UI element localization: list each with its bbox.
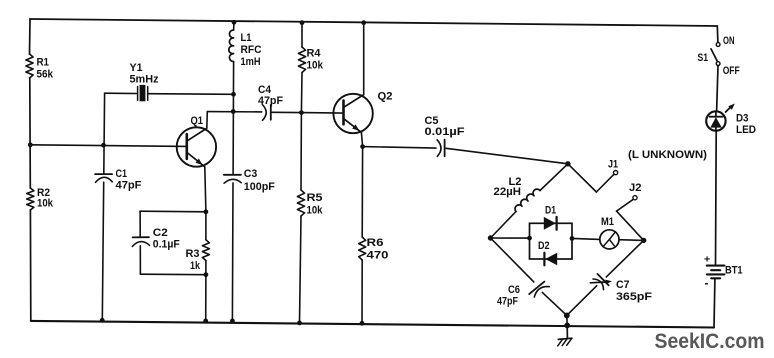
- svg-text:365pF: 365pF: [616, 291, 652, 303]
- wire C2 box left bottom: [139, 246, 141, 274]
- wire L1 to C3: [232, 62, 235, 175]
- svg-text:470: 470: [367, 249, 389, 261]
- node base-wire/left-edge junction: [28, 142, 33, 147]
- svg-text:10k: 10k: [307, 205, 324, 217]
- node Q2 collector at rail: [361, 20, 366, 25]
- wire crystal branch vertical: [103, 93, 106, 173]
- wire top node to J1 bend: [568, 164, 597, 192]
- svg-text:J1: J1: [608, 159, 618, 171]
- wire node to R5: [300, 113, 302, 190]
- node bridge bottom: [564, 313, 570, 319]
- wire Q1 collector up: [206, 112, 209, 129]
- meter M1: [600, 230, 619, 249]
- wire Q1 base net: [30, 145, 187, 147]
- wire emitter to C5: [363, 147, 436, 149]
- wire C7 to bottom node: [567, 286, 597, 316]
- svg-text:47pF: 47pF: [258, 95, 283, 107]
- wire bottom rail: [31, 321, 714, 328]
- node bridge top: [565, 161, 570, 166]
- node R4 top at rail: [300, 20, 305, 25]
- svg-text:47pF: 47pF: [497, 296, 518, 308]
- svg-text:LED: LED: [736, 124, 756, 136]
- transistor Q1: [177, 127, 216, 166]
- wire right node to C7: [606, 240, 643, 277]
- resistor R3: [205, 212, 207, 240]
- LED arrow: [726, 107, 731, 112]
- node C3 branch at bottom rail: [230, 319, 235, 324]
- wire collector to C4 net: [207, 111, 261, 113]
- node R5 branch at bottom rail: [297, 321, 302, 326]
- node C1 branch at bottom rail: [100, 318, 105, 323]
- wire diode box to M1: [572, 238, 600, 239]
- svg-text:C7: C7: [616, 279, 630, 291]
- wire J2 bend up: [617, 199, 634, 211]
- node crystal/L1-branch junction: [231, 92, 236, 97]
- battery BT1: [707, 265, 725, 267]
- node R6 branch at bottom rail: [360, 321, 365, 326]
- svg-text:C2: C2: [153, 227, 168, 239]
- wire Q2 emitter down: [361, 132, 362, 146]
- svg-text:D1: D1: [545, 205, 556, 217]
- capacitor C4: [262, 105, 266, 121]
- wire left node to diode box: [491, 237, 530, 239]
- wire R3 to bottom rail: [205, 275, 207, 321]
- svg-text:R5: R5: [307, 192, 323, 204]
- svg-text:BT1: BT1: [725, 265, 743, 277]
- node C4/R4/R5 junction: [299, 110, 304, 115]
- svg-text:RFC: RFC: [241, 44, 262, 56]
- node C1/base junction: [101, 143, 106, 148]
- svg-text:C6: C6: [508, 284, 520, 296]
- svg-text:(L UNKNOWN): (L UNKNOWN): [628, 149, 707, 161]
- wire left node to C6: [491, 238, 534, 282]
- node collector wire / L1 branch: [231, 109, 236, 114]
- svg-text:OFF: OFF: [723, 65, 740, 77]
- wire C3 to bottom rail: [231, 183, 234, 321]
- switch S1 terminal OFF: [716, 62, 720, 66]
- svg-text:-: -: [705, 276, 709, 290]
- wire L2 to left node: [491, 212, 517, 239]
- wire C2 box top: [140, 210, 206, 213]
- wire Q1 emitter down: [205, 167, 206, 212]
- wire M1 to right node: [619, 239, 644, 242]
- capacitor C2: [133, 236, 149, 238]
- capacitor C5: [437, 140, 441, 157]
- svg-text:+: +: [704, 254, 710, 266]
- svg-text:1k: 1k: [190, 260, 201, 272]
- wire Q2 collector up: [363, 23, 365, 95]
- resistor R2: [27, 188, 34, 210]
- capacitor C3: [224, 174, 241, 176]
- ground: [566, 325, 568, 338]
- wire bridge top to L2: [540, 164, 568, 191]
- wire rail to R4: [301, 23, 303, 47]
- wire C2 box bottom: [140, 273, 206, 276]
- svg-text:0.1µF: 0.1µF: [153, 239, 180, 251]
- svg-text:5mHz: 5mHz: [130, 74, 159, 86]
- svg-text:S1: S1: [698, 52, 709, 64]
- svg-text:R1: R1: [37, 57, 50, 69]
- wire LED to battery: [715, 131, 718, 265]
- svg-text:1mH: 1mH: [241, 56, 261, 68]
- svg-text:J2: J2: [629, 182, 642, 194]
- node diode box right: [570, 236, 575, 241]
- svg-text:M1: M1: [601, 216, 614, 228]
- inductor L1: [233, 22, 235, 30]
- svg-text:R6: R6: [367, 237, 384, 249]
- svg-text:0.01µF: 0.01µF: [425, 126, 465, 138]
- switch S1 blade: [711, 49, 718, 62]
- node L1 top at rail: [232, 20, 237, 25]
- svg-text:ON: ON: [723, 35, 735, 47]
- node Q2 emitter junction: [360, 144, 365, 149]
- inductor L2: [515, 189, 540, 211]
- svg-text:D3: D3: [736, 113, 749, 125]
- wire C6 to bottom node: [542, 292, 567, 315]
- svg-text:SeekIC.com: SeekIC.com: [655, 329, 765, 353]
- capacitor C7 (variable): [597, 274, 608, 285]
- diode box outline: [530, 223, 573, 259]
- wire S1 to LED: [717, 66, 718, 112]
- wire right node to J2 bend: [617, 211, 644, 240]
- svg-text:Q1: Q1: [191, 115, 204, 127]
- node bridge at bottom rail: [564, 323, 570, 329]
- wire emitter to R6: [361, 147, 363, 237]
- wire battery to bottom rail: [713, 279, 716, 327]
- svg-text:Y1: Y1: [130, 62, 143, 74]
- terminal J1: [614, 171, 618, 175]
- wire left edge middle: [29, 78, 32, 188]
- diode D1: [544, 217, 556, 230]
- capacitor C1: [95, 173, 112, 175]
- wire R4 to node: [300, 73, 303, 113]
- wire left edge top: [29, 19, 32, 54]
- wire C5 to bridge top node: [446, 148, 568, 164]
- svg-text:L1: L1: [241, 32, 252, 44]
- switch S1 terminal ON: [716, 43, 720, 47]
- svg-text:R4: R4: [307, 48, 322, 60]
- node R3 branch at bottom rail: [203, 319, 208, 324]
- node C2-R3 top junction: [204, 209, 209, 214]
- LED D3: [706, 111, 725, 130]
- wire Q2 base: [301, 112, 343, 115]
- svg-text:C1: C1: [116, 168, 128, 180]
- wire left edge bottom: [29, 210, 31, 321]
- transistor Q2: [333, 94, 372, 133]
- wire C4 to R4/R5 node: [272, 111, 301, 113]
- resistor R5: [297, 190, 304, 216]
- svg-text:10k: 10k: [37, 198, 54, 210]
- wire crystal left lead: [105, 92, 138, 94]
- node C2-R3 bottom junction: [204, 272, 209, 277]
- wire C2 box left top: [139, 211, 141, 237]
- diode D2: [545, 253, 557, 266]
- svg-text:R3: R3: [186, 248, 200, 260]
- wire J1 bend up: [596, 174, 614, 192]
- wire crystal right lead: [148, 93, 234, 96]
- svg-text:56k: 56k: [37, 69, 54, 81]
- svg-text:22µH: 22µH: [494, 186, 522, 198]
- node bridge left: [488, 235, 493, 240]
- node diode box left: [527, 236, 532, 241]
- wire top rail: [30, 19, 717, 26]
- svg-text:10k: 10k: [307, 60, 324, 72]
- svg-text:100pF: 100pF: [244, 181, 275, 193]
- resistor R1: [26, 54, 33, 78]
- svg-text:D2: D2: [538, 240, 550, 252]
- wire bottom node to rail: [566, 315, 568, 325]
- wire R6 to bottom rail: [361, 260, 363, 323]
- resistor R6: [359, 237, 366, 260]
- node bridge right: [641, 238, 646, 243]
- terminal J2: [633, 196, 637, 200]
- svg-text:Q2: Q2: [378, 91, 393, 103]
- svg-text:C3: C3: [244, 168, 257, 180]
- resistor R4: [298, 47, 305, 73]
- wire R5 to bottom rail: [300, 216, 302, 323]
- crystal Y1: [137, 87, 139, 101]
- capacitor C6: [529, 282, 544, 295]
- wire top rail to S1: [716, 26, 719, 42]
- svg-text:47pF: 47pF: [116, 180, 142, 192]
